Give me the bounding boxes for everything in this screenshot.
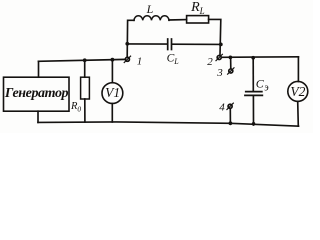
terminal 3 [228, 68, 234, 74]
svg-text:V2: V2 [290, 84, 305, 99]
resistor R0 [81, 77, 90, 99]
node junction V1 top [111, 58, 115, 62]
inductor L [134, 16, 169, 21]
svg-text:4: 4 [219, 101, 225, 113]
wire Ce bottom [252, 96, 254, 126]
terminal 4 [227, 103, 233, 109]
wire RL to right corner and down to terminal 2 [209, 19, 221, 55]
node CL left junction [125, 42, 129, 46]
wire terminal 4 stub [229, 109, 231, 124]
wire top-left bus [39, 59, 126, 61]
svg-text:2: 2 [207, 56, 213, 68]
terminal 1 [124, 56, 130, 62]
voltmeter V1 [102, 83, 123, 104]
wire V1 top [111, 60, 113, 83]
terminal 2 [216, 54, 222, 60]
wire Ce top [252, 58, 254, 91]
wire V2 top [297, 57, 299, 82]
svg-text:V1: V1 [105, 85, 120, 100]
voltmeter V2 [288, 81, 308, 101]
svg-text:Генератор: Генератор [4, 86, 69, 101]
generator G box [4, 77, 70, 111]
wire R0 bottom [84, 99, 86, 122]
resistor RL [187, 16, 209, 23]
wire CL right [172, 43, 221, 45]
capacitor CL [168, 39, 172, 50]
svg-text:L: L [146, 2, 154, 16]
wire inductor to RL [169, 19, 187, 21]
svg-text:3: 3 [216, 67, 223, 79]
wire bottom bus [38, 122, 299, 126]
node terminal4 bus junction [229, 121, 233, 125]
capacitor Ce [245, 92, 262, 96]
node CL right junction [219, 43, 223, 47]
wire CL left [127, 43, 167, 45]
wire V2 bottom [297, 101, 300, 126]
wire left vertical of top section [127, 20, 134, 57]
node junction R0 top [83, 58, 87, 62]
node junction terminal3 stub [229, 56, 233, 60]
wire generator bottom stub [37, 111, 39, 122]
node junction Ce top [251, 56, 255, 60]
wire top-right bus [222, 56, 299, 59]
node Ce bottom junction [252, 122, 256, 126]
wire V1 bottom [111, 104, 113, 123]
wire stub to terminal 3 [230, 57, 232, 68]
wire R0 top [84, 60, 86, 77]
wire generator top stub [38, 61, 40, 77]
svg-text:1: 1 [137, 55, 143, 67]
